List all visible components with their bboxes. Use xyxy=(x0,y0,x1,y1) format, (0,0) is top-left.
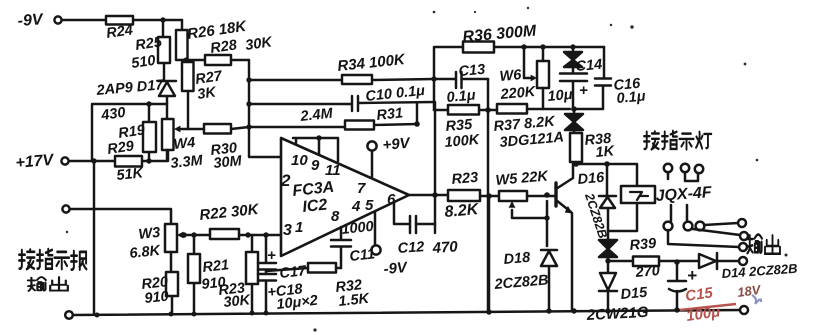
svg-text:2CW21G: 2CW21G xyxy=(585,304,649,324)
svg-text:C15: C15 xyxy=(684,284,714,305)
svg-text:+: + xyxy=(687,266,697,285)
svg-text:7: 7 xyxy=(357,180,366,197)
node W3 wiper xyxy=(181,232,187,238)
wire feedback column x488 xyxy=(487,79,490,313)
capacitor C16 xyxy=(574,47,611,109)
svg-text:510: 510 xyxy=(130,53,156,72)
svg-text:R31: R31 xyxy=(376,105,404,124)
svg-text:430: 430 xyxy=(99,105,126,124)
diode D16 xyxy=(599,164,616,231)
indicator diode blob top xyxy=(564,47,582,67)
svg-text:R22 30K: R22 30K xyxy=(199,201,261,224)
svg-text:2CZ82B: 2CZ82B xyxy=(493,272,549,293)
wire R35 row xyxy=(434,109,570,110)
node rail-C14 chain xyxy=(570,44,575,49)
resistor R28 xyxy=(205,55,231,65)
resistor R38 xyxy=(570,133,582,162)
svg-text:FC3A: FC3A xyxy=(292,179,335,200)
wire R26-R28 junction xyxy=(182,59,205,61)
svg-text:10μ: 10μ xyxy=(547,87,573,105)
wire op-amp output xyxy=(409,195,499,196)
svg-text:2.4M: 2.4M xyxy=(299,106,335,125)
svg-text:8.2K: 8.2K xyxy=(444,201,481,221)
terminal bottom-left xyxy=(65,311,73,319)
transistor Q 3DG121A xyxy=(554,183,557,206)
node bus-R34 xyxy=(246,77,251,82)
wire left long vertical xyxy=(93,161,95,313)
potentiometer W4 xyxy=(162,119,174,150)
svg-text:910: 910 xyxy=(144,289,170,307)
svg-text:1.5K: 1.5K xyxy=(338,291,372,310)
svg-text:470: 470 xyxy=(431,238,459,257)
svg-text:100K: 100K xyxy=(444,132,481,151)
svg-text:D16: D16 xyxy=(577,170,606,188)
wire node row y104 xyxy=(92,104,167,161)
svg-text:R28: R28 xyxy=(209,37,238,57)
resistor R20 xyxy=(171,252,172,313)
node rail-W6 wiper xyxy=(521,44,526,49)
resistor R32 row xyxy=(266,268,341,271)
svg-text:W4: W4 xyxy=(173,135,196,153)
svg-text:D15: D15 xyxy=(620,285,649,303)
svg-text:R24: R24 xyxy=(105,22,134,42)
svg-text:R36 300M: R36 300M xyxy=(462,23,538,46)
lamp terminals xyxy=(664,164,672,172)
node C13-R34 xyxy=(431,76,436,81)
svg-text:D14 2CZ82B: D14 2CZ82B xyxy=(721,261,798,281)
capacitor C15 xyxy=(668,262,686,310)
wire pin3 row xyxy=(184,234,281,237)
node rail-W6 top xyxy=(540,44,545,49)
potentiometer W5 xyxy=(499,191,527,201)
svg-text:R21: R21 xyxy=(202,257,230,276)
svg-text:30M: 30M xyxy=(213,153,244,172)
svg-text:IC2: IC2 xyxy=(302,196,329,216)
node C17 top xyxy=(263,232,268,237)
wire C10 row xyxy=(249,102,435,104)
svg-text:4: 4 xyxy=(351,198,361,215)
relay contacts xyxy=(671,205,687,221)
resistor R29 xyxy=(115,156,142,167)
svg-text:11: 11 xyxy=(325,162,341,179)
svg-text:30K: 30K xyxy=(244,34,274,54)
node bus-R30 xyxy=(246,124,251,129)
resistor R22 xyxy=(210,229,239,239)
svg-text:3: 3 xyxy=(283,222,292,239)
svg-text:1K: 1K xyxy=(595,143,616,161)
wire bottom output row xyxy=(70,209,171,224)
wire +17V row xyxy=(69,150,168,161)
resistor R21 xyxy=(193,235,196,313)
svg-text:1: 1 xyxy=(295,219,303,236)
node rail-R25 xyxy=(160,17,165,22)
svg-text:1000: 1000 xyxy=(341,219,375,238)
svg-text:W6: W6 xyxy=(499,67,523,85)
capacitor C17 C18 stack xyxy=(258,235,276,313)
node R21 top xyxy=(191,232,196,237)
capacitor C14 xyxy=(560,67,587,109)
diode D17 xyxy=(158,81,176,104)
resistor R23b xyxy=(251,235,254,313)
capacitor C12 loop xyxy=(394,202,435,224)
svg-text:2: 2 xyxy=(280,171,291,190)
svg-text:C17: C17 xyxy=(279,263,308,282)
blue scribble xyxy=(752,295,761,304)
svg-text:W3: W3 xyxy=(138,225,161,243)
diode D15 zener xyxy=(599,261,617,311)
wire R34 row xyxy=(249,79,434,80)
label chinese right 输出 xyxy=(747,234,762,253)
resistor R37 xyxy=(497,104,527,114)
node R23b top xyxy=(245,232,250,237)
capacitor C13 xyxy=(434,72,488,88)
resistor R31 xyxy=(345,121,374,130)
svg-text:D18: D18 xyxy=(503,250,532,268)
svg-text:+17V: +17V xyxy=(15,152,55,172)
node R19 bottom xyxy=(146,158,151,163)
wire R25 drop xyxy=(163,20,164,80)
svg-text:5: 5 xyxy=(365,197,374,214)
svg-text:9: 9 xyxy=(311,157,320,174)
svg-text:10μ×2: 10μ×2 xyxy=(276,293,319,313)
terminal out contacts xyxy=(738,219,746,227)
svg-text:W5 22K: W5 22K xyxy=(495,168,550,189)
wire bottom rail xyxy=(73,310,744,315)
svg-text:C14: C14 xyxy=(575,57,603,75)
svg-text:R39: R39 xyxy=(629,236,657,254)
svg-text:+: + xyxy=(579,82,588,99)
resistor R27 xyxy=(187,60,189,129)
svg-text:C11: C11 xyxy=(349,246,376,265)
svg-text:220K: 220K xyxy=(499,84,537,103)
potentiometer W3 xyxy=(165,224,177,252)
svg-text:3.3M: 3.3M xyxy=(170,153,205,172)
svg-text:-9V: -9V xyxy=(383,259,410,278)
wire R39 row xyxy=(608,260,677,263)
svg-text:JQX-4F: JQX-4F xyxy=(655,184,713,205)
svg-text:270: 270 xyxy=(634,263,661,281)
svg-text:+: + xyxy=(267,247,276,264)
wire top rail left xyxy=(62,19,182,21)
svg-text:C12: C12 xyxy=(397,239,425,257)
wire feedback riser xyxy=(434,102,436,233)
junction dots on bottom rail xyxy=(95,313,100,318)
svg-text:0.1μ: 0.1μ xyxy=(446,88,476,106)
wire rail corner to R26 xyxy=(181,20,183,30)
diode D18 xyxy=(541,218,557,311)
terminal +17V xyxy=(61,157,68,164)
label chinese 接指示灯 xyxy=(644,131,659,149)
svg-text:18V: 18V xyxy=(736,282,762,300)
resistor R35 xyxy=(448,105,479,115)
resistor R19 xyxy=(148,104,150,161)
node bus-C10 xyxy=(246,101,251,106)
potentiometer W6 xyxy=(537,61,549,88)
diode D14 xyxy=(677,253,739,269)
scan specks xyxy=(630,25,633,28)
resistor R23 xyxy=(448,190,480,201)
wire pin bus 10-9-11 xyxy=(293,138,338,161)
op-amp U IC2 triangle xyxy=(281,138,409,256)
wire top rail right xyxy=(434,47,604,110)
wire -9V pin5 xyxy=(374,212,377,245)
capacitor C11 xyxy=(331,227,351,268)
terminal out D14 xyxy=(739,257,747,265)
resistor R39 xyxy=(633,257,659,267)
terminal -9V xyxy=(371,245,380,254)
svg-text:2AP9 D17: 2AP9 D17 xyxy=(95,77,165,99)
terminal bottom right xyxy=(740,306,748,314)
wire R31 row xyxy=(249,103,417,127)
svg-text:R34 100K: R34 100K xyxy=(337,51,407,75)
svg-text:51K: 51K xyxy=(116,165,146,184)
node +17V-vertical xyxy=(91,158,96,163)
wire junction column x489 xyxy=(488,196,491,313)
svg-text:6: 6 xyxy=(387,191,396,208)
resistor R26 xyxy=(176,30,188,60)
resistor R36 xyxy=(463,42,494,53)
vertical bus x249 xyxy=(249,60,281,157)
junction blob diamond xyxy=(599,231,617,261)
resistor R25 xyxy=(158,37,170,63)
svg-text:-9V: -9V xyxy=(17,11,44,30)
wire collector node to relay xyxy=(576,164,637,186)
svg-text:30K: 30K xyxy=(223,292,253,311)
svg-text:8: 8 xyxy=(331,208,340,225)
wire W4 top lead xyxy=(166,104,168,119)
label chinese left 接指示报 输出 xyxy=(19,249,34,269)
terminal +9V xyxy=(367,141,376,150)
svg-text:10: 10 xyxy=(291,152,308,169)
svg-text:0.1μ: 0.1μ xyxy=(616,89,646,107)
svg-text:3K: 3K xyxy=(196,84,218,103)
resistor R24 xyxy=(106,16,133,25)
indicator diode blob mid xyxy=(565,109,583,133)
terminal -9V xyxy=(54,16,61,23)
wire +9V pin7 xyxy=(371,151,374,177)
wire R28 to bus xyxy=(231,59,249,61)
svg-text:+9V: +9V xyxy=(382,135,412,154)
svg-text:C13: C13 xyxy=(458,62,486,80)
relay JGX-4F coil xyxy=(621,186,655,203)
resistor R30 xyxy=(188,127,249,129)
node D17-W4 xyxy=(146,101,151,106)
terminal indicator-out top xyxy=(62,205,69,212)
resistor R34 xyxy=(342,75,372,84)
svg-text:R23: R23 xyxy=(451,170,479,188)
capacitor C10 xyxy=(352,96,358,111)
svg-text:6.8K: 6.8K xyxy=(129,243,163,262)
